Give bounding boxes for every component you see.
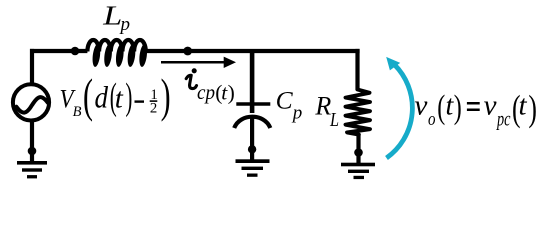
dot of i bbox=[192, 68, 197, 73]
equals sign bbox=[467, 102, 480, 105]
svg-text:): ) bbox=[161, 70, 171, 123]
wire top-left horizontal segment bbox=[30, 49, 87, 53]
inductor Lp humps bbox=[87, 40, 145, 52]
node dot below capacitor bbox=[248, 145, 256, 153]
node dot A (left of inductor) bbox=[71, 47, 80, 56]
wire top-right horizontal segment bbox=[146, 49, 360, 53]
svg-text:v: v bbox=[484, 90, 497, 122]
svg-text:B: B bbox=[73, 104, 82, 120]
svg-text:R: R bbox=[314, 91, 331, 120]
svg-text:v: v bbox=[415, 90, 428, 122]
svg-text:(: ( bbox=[83, 70, 93, 123]
capacitor bottom lead bbox=[250, 118, 254, 150]
svg-text:t: t bbox=[519, 90, 528, 122]
svg-text:): ) bbox=[454, 89, 462, 126]
capacitor Cp curved plate bbox=[234, 117, 270, 128]
resistor RL coil bbox=[346, 90, 371, 135]
inner right paren bbox=[125, 76, 132, 118]
wire left vertical bbox=[30, 49, 34, 85]
svg-text:): ) bbox=[125, 76, 132, 118]
wire stub to ground 2 bbox=[250, 149, 254, 160]
ground 2 (capacitor) bbox=[236, 159, 270, 177]
svg-text:t: t bbox=[115, 83, 124, 115]
svg-text:cp: cp bbox=[197, 80, 215, 104]
capacitor Cp top plate bbox=[236, 102, 270, 106]
cyan arrowhead bbox=[386, 57, 400, 71]
svg-text:d: d bbox=[95, 80, 109, 115]
sine wave inside source bbox=[16, 97, 48, 113]
ground 1 (source) bbox=[17, 161, 47, 178]
svg-text:L: L bbox=[102, 0, 122, 30]
current arrow icp bbox=[161, 61, 226, 64]
wire stub to ground 3 bbox=[356, 153, 360, 164]
svg-text:p: p bbox=[118, 15, 130, 35]
svg-text:pc: pc bbox=[496, 109, 511, 130]
big right paren bbox=[161, 70, 171, 123]
svg-text:o: o bbox=[428, 109, 436, 130]
svg-text:L: L bbox=[329, 109, 339, 131]
svg-text:): ) bbox=[228, 81, 235, 105]
svg-text:(: ( bbox=[437, 89, 445, 126]
label VB(d(t)-1/2) bbox=[60, 70, 171, 123]
resistor bottom lead bbox=[356, 134, 360, 153]
ground 3 (resistor) bbox=[341, 163, 375, 179]
node dot below resistor bbox=[354, 148, 363, 157]
wire below source bbox=[30, 120, 34, 151]
source U1 circle bbox=[13, 84, 49, 120]
inductor Lp loops bbox=[91, 44, 148, 68]
svg-text:p: p bbox=[291, 102, 303, 123]
node dot below source bbox=[28, 147, 37, 156]
label i bbox=[186, 75, 196, 88]
inner left paren bbox=[110, 76, 117, 118]
svg-text:2: 2 bbox=[150, 100, 157, 116]
node dot B (right of inductor) bbox=[183, 47, 192, 56]
label vo(t) = vpc(t) bbox=[415, 88, 537, 130]
svg-text:): ) bbox=[528, 88, 537, 129]
cyan arc arrow vo bbox=[387, 65, 413, 159]
minus sign bbox=[135, 100, 145, 102]
wire stub to ground 1 bbox=[30, 151, 34, 161]
resistor branch top lead bbox=[355, 49, 359, 90]
big left paren bbox=[83, 70, 93, 123]
capacitor branch top lead bbox=[250, 51, 255, 113]
svg-text:C: C bbox=[276, 86, 294, 115]
